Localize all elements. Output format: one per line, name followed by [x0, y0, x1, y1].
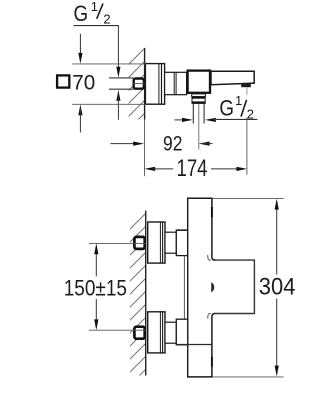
- bump top-left hook: [208, 255, 211, 260]
- lower escutcheon plate (bottom view): [148, 312, 165, 353]
- wall face line (top view): [144, 48, 146, 120]
- square symbol of square-70 label: [57, 75, 69, 87]
- svg-text:70: 70: [72, 72, 95, 95]
- body bottom edge: [187, 376, 213, 378]
- spout aerator: [241, 84, 251, 87]
- body left edge: [187, 198, 189, 378]
- svg-text:304: 304: [259, 273, 296, 300]
- outlet pipe center line: [198, 104, 200, 149]
- darker edge segments on body right edge: [211, 207, 213, 218]
- rear boss line between fittings: [183, 256, 185, 320]
- wall face line (bottom view): [145, 211, 147, 376]
- outlet collar below body: [192, 94, 206, 97]
- lower supply nut (bottom view): [134, 327, 144, 339]
- lower cylinder: [165, 322, 176, 343]
- body top edge: [187, 197, 213, 199]
- bump bottom-left hook: [208, 314, 211, 319]
- svg-text:G: G: [219, 96, 234, 121]
- lower union nut: [176, 319, 187, 345]
- body right edge lower + curve from bump: [212, 314, 215, 377]
- outlet nut (G1/2): [192, 97, 205, 104]
- dimension 304: [213, 197, 284, 199]
- svg-text:2: 2: [103, 11, 110, 26]
- upper nut top edge crossing body: [176, 229, 212, 231]
- supply pipe behind wall (top view): [109, 77, 134, 79]
- upper supply nut (bottom view): [134, 237, 144, 249]
- dimension 92: [110, 143, 141, 145]
- dimension 174: [144, 167, 155, 171]
- lower leader line (150 dim): [89, 329, 146, 331]
- escutcheon plate (top view): [145, 64, 164, 105]
- connecting tube (top view): [165, 72, 187, 94]
- bath spout (top view): [211, 71, 254, 85]
- wall hatching (bottom view): [128, 211, 148, 387]
- body slab fill: [188, 198, 255, 377]
- svg-text:92: 92: [163, 132, 182, 155]
- upper escutcheon plate (bottom view): [148, 222, 165, 263]
- cartridge bump outline: [214, 260, 254, 313]
- dimension square-70: extension lines: [72, 63, 145, 65]
- dimension square-70: dimension line + arrows: [79, 34, 81, 61]
- wall hatching (top view): [127, 46, 147, 144]
- wall face extension line (below top view): [144, 120, 146, 177]
- G1/2 top leader: underline: [73, 25, 119, 27]
- svg-text:G: G: [74, 1, 89, 26]
- temperature marker (D mark): [211, 282, 214, 292]
- G1/2 top leader: vertical with arrows onto supply pipe: [117, 26, 119, 75]
- outlet pipe walls: [192, 103, 194, 123]
- G1/2 outlet leader: arrows pointing at nut: [175, 119, 191, 121]
- upper cylinder: [165, 232, 176, 253]
- dimension 150±15: [95, 246, 97, 276]
- upper union nut: [176, 230, 187, 256]
- body right edge upper + curve into bump: [212, 198, 215, 260]
- svg-text:1: 1: [235, 93, 242, 108]
- lower nut bottom edge crossing body: [176, 344, 212, 346]
- svg-text:1: 1: [91, 0, 98, 14]
- svg-text:150±15: 150±15: [64, 276, 127, 301]
- mixer body (top view): [188, 71, 210, 93]
- svg-text:174: 174: [177, 155, 208, 182]
- aerator extension line (lower part): [246, 118, 248, 175]
- supply elbow nut at wall (top view): [134, 79, 144, 89]
- upper leader line (150 dim): [89, 242, 146, 244]
